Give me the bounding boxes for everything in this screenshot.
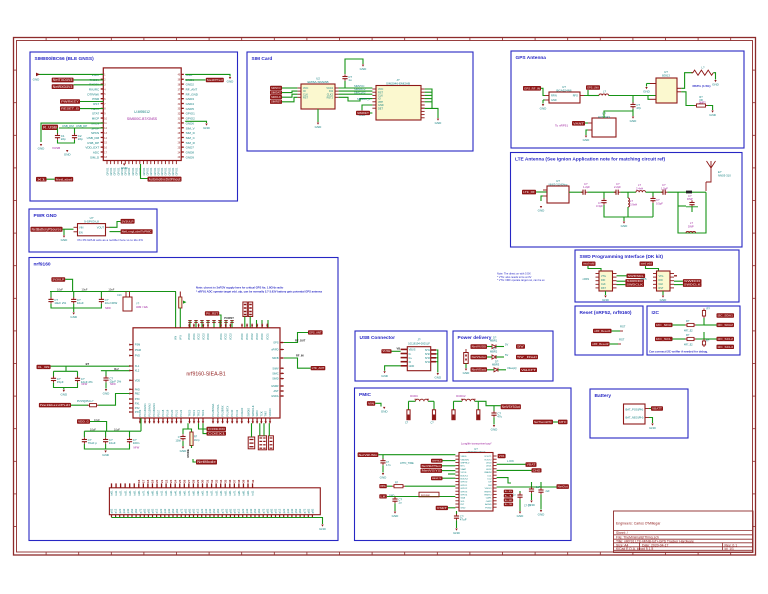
- note box: Reset: [575, 306, 643, 355]
- capacitor: [83, 437, 85, 439]
- net label nRF_Reset2: [591, 342, 610, 346]
- net label VANT: [572, 121, 585, 126]
- svg-text:GND: GND: [538, 209, 546, 213]
- svg-text:4R7_E2: 4R7_E2: [684, 330, 693, 333]
- svg-text:1M p: 1M p: [194, 439, 200, 442]
- net label SWDIO: [683, 279, 702, 283]
- svg-text:U-M95012: U-M95012: [134, 110, 150, 114]
- wire: [71, 404, 88, 406]
- wire w: [195, 320, 197, 328]
- net label NetLongLabelToPMIC: [121, 229, 153, 234]
- svg-text:I2C_SCL2: I2C_SCL2: [718, 337, 734, 341]
- svg-text:40: 40: [246, 479, 250, 483]
- wire: [63, 388, 65, 390]
- svg-text:RST: RST: [659, 287, 664, 290]
- svg-text:PU/RST: PU/RST: [224, 316, 234, 320]
- svg-text:XL2: XL2: [135, 370, 140, 373]
- wire: [408, 401, 410, 410]
- wire: [487, 356, 492, 358]
- note box: SIM800/BC66 (BLE GNSS): [30, 52, 238, 201]
- svg-text:GND: GND: [621, 224, 629, 228]
- svg-text:3V3ULP: 3V3ULP: [122, 219, 134, 223]
- svg-text:10uF: 10uF: [57, 287, 63, 291]
- svg-text:GND4: GND4: [186, 102, 195, 106]
- svg-text:L?: L?: [630, 199, 633, 203]
- crystal Y1: [123, 297, 132, 311]
- svg-text:PWRKEY: PWRKEY: [61, 100, 79, 104]
- svg-text:p72: p72: [261, 508, 265, 513]
- svg-text:COEX0: COEX0: [240, 407, 244, 416]
- svg-text:nRF5: nRF5: [640, 277, 647, 281]
- wire: [436, 361, 438, 363]
- capacitor: [661, 191, 663, 193]
- svg-text:io31: io31: [169, 490, 173, 496]
- svg-text:36: 36: [228, 479, 232, 483]
- capacitor: [105, 376, 107, 378]
- wire: [259, 423, 261, 436]
- svg-text:p82: p82: [306, 508, 310, 513]
- wire: [251, 423, 253, 437]
- svg-text:p32: p32: [286, 508, 290, 513]
- svg-text:GND: GND: [203, 126, 211, 130]
- svg-text:VTG: VTG: [659, 275, 664, 278]
- jumper JP1: [464, 353, 469, 364]
- svg-text:9-SPX3-L8: 9-SPX3-L8: [84, 220, 99, 224]
- svg-text:p02: p02: [274, 508, 278, 513]
- svg-text:p22: p22: [282, 508, 286, 513]
- wire: [382, 465, 384, 472]
- wire: [84, 444, 129, 449]
- svg-text:GND: GND: [453, 531, 461, 535]
- ground: [123, 164, 125, 166]
- svg-text:P0.14/AIN1: P0.14/AIN1: [143, 403, 147, 417]
- wire: [267, 320, 269, 328]
- net label NetBatteryPSource: [31, 227, 63, 232]
- net label NetOut: [557, 484, 569, 489]
- svg-text:RF_ANT: RF_ANT: [186, 87, 198, 91]
- wire: [632, 96, 634, 104]
- svg-text:p12: p12: [196, 508, 200, 513]
- wire: [696, 332, 704, 339]
- svg-text:PU_RST: PU_RST: [206, 311, 219, 315]
- svg-text:io71: io71: [141, 490, 145, 496]
- svg-text:R?: R?: [707, 307, 711, 311]
- wire: [219, 315, 221, 328]
- svg-text:RS: RS: [380, 484, 386, 488]
- svg-text:22p: 22p: [78, 137, 83, 141]
- svg-text:SIMDET: SIMDET: [357, 111, 369, 115]
- inductor L4: [693, 70, 713, 75]
- svg-text:BAT_POS(PH): BAT_POS(PH): [626, 408, 644, 412]
- svg-text:DNP: DNP: [687, 197, 693, 201]
- net label L1: [504, 494, 513, 498]
- wire: [436, 350, 438, 373]
- svg-text:VB: VB: [397, 347, 401, 351]
- U10 right pin stubs: [280, 342, 284, 344]
- wire: [586, 130, 588, 135]
- svg-text:L?: L?: [638, 183, 641, 187]
- svg-text:GPIO2: GPIO2: [461, 488, 468, 490]
- wire l3: [442, 470, 455, 472]
- svg-text:1.2pF: 1.2pF: [583, 185, 590, 189]
- svg-text:4R7_E2: 4R7_E2: [684, 344, 693, 347]
- wire: [179, 308, 181, 328]
- wire: [704, 324, 717, 326]
- wire: [496, 346, 504, 348]
- J5 right pin stubs: [431, 349, 436, 351]
- net label I2C_SDA1: [717, 313, 735, 317]
- wire: [105, 382, 107, 388]
- wire: [646, 266, 659, 271]
- svg-text:P0.13: P0.13: [138, 409, 142, 416]
- note box: USB Connector: [355, 331, 447, 381]
- wire: [425, 91, 432, 93]
- wire: [105, 431, 107, 437]
- U1 right pin stubs: [181, 73, 184, 75]
- svg-text:D-: D-: [409, 353, 412, 356]
- wire: [623, 217, 625, 221]
- svg-text:1.5pF: 1.5pF: [661, 186, 668, 190]
- svg-text:* VTG: NRF operate target out,: * VTG: NRF operate target out, can be ex: [497, 278, 545, 282]
- svg-text:DCDC: DCDC: [410, 394, 418, 398]
- svg-text:100n: 100n: [175, 439, 181, 442]
- svg-text:1u: 1u: [398, 501, 402, 505]
- svg-text:NetLongLabelToPMIC: NetLongLabelToPMIC: [122, 230, 153, 234]
- svg-text:VIN: VIN: [368, 401, 374, 405]
- wire: [362, 105, 372, 110]
- resistor: [392, 485, 394, 487]
- wire: [375, 403, 381, 406]
- svg-text:30: 30: [201, 479, 205, 483]
- wire to net label: [141, 164, 148, 179]
- wire: [382, 455, 384, 460]
- wire: [345, 59, 363, 74]
- wire: [649, 418, 653, 424]
- svg-text:VDD3: VDD3: [256, 333, 259, 340]
- svg-text:SIMCLK: SIMCLK: [271, 95, 281, 99]
- wire: [604, 205, 624, 217]
- wire: [696, 318, 704, 325]
- svg-text:P0.17: P0.17: [157, 409, 161, 416]
- svg-text:GND8: GND8: [186, 151, 195, 155]
- svg-text:C? C?: C? C?: [524, 505, 531, 508]
- svg-text:MICP: MICP: [92, 117, 100, 121]
- inductor: [636, 191, 646, 193]
- net label VIN: [367, 401, 375, 406]
- capacitor: [632, 102, 634, 104]
- wire: [585, 122, 588, 124]
- svg-text:P0.15/AIN2: P0.15/AIN2: [148, 403, 152, 417]
- ground: [711, 111, 713, 113]
- svg-text:P0.18: P0.18: [161, 409, 165, 416]
- wire: [90, 422, 107, 432]
- svg-text:SIM800C-BT/GNSS: SIM800C-BT/GNSS: [127, 117, 158, 121]
- svg-text:p92: p92: [188, 508, 192, 513]
- battery connector J6: [624, 404, 646, 424]
- wire: [57, 128, 59, 134]
- wire: [465, 364, 467, 369]
- wire: [370, 112, 372, 114]
- antenna ANT1: [706, 161, 716, 182]
- wire: [387, 496, 456, 498]
- wire: [51, 304, 101, 308]
- test point: [686, 191, 692, 194]
- ground: [63, 390, 65, 392]
- svg-text:10uF: 10uF: [109, 441, 116, 445]
- svg-text:BAT_NEG(PH): BAT_NEG(PH): [626, 416, 644, 420]
- wire: [73, 292, 75, 298]
- svg-text:p12: p12: [155, 508, 159, 513]
- svg-text:p82: p82: [265, 508, 269, 513]
- svg-text:GND: GND: [517, 514, 525, 518]
- svg-text:VUSB: VUSB: [383, 349, 391, 353]
- wire: [584, 90, 588, 96]
- wire: [540, 494, 542, 509]
- wire: [58, 140, 75, 143]
- wire w: [201, 320, 203, 328]
- wire l4: [443, 477, 456, 479]
- svg-text:NetMode: NetMode: [197, 460, 216, 464]
- ground: [530, 501, 532, 503]
- svg-text:p52: p52: [253, 508, 257, 513]
- svg-text:NN03-310-E4nu: NN03-310-E4nu: [549, 182, 568, 186]
- wire USB_DM: [41, 123, 103, 142]
- svg-text:1u: 1u: [348, 78, 352, 82]
- ground: [229, 77, 231, 79]
- wire: [405, 485, 455, 487]
- ground: [651, 424, 653, 426]
- wire: [339, 90, 373, 92]
- svg-text:GPIO1: GPIO1: [164, 167, 168, 175]
- svg-text:VOUT1: VOUT1: [484, 456, 492, 458]
- svg-text:PWR GND: PWR GND: [34, 213, 58, 219]
- ground: [105, 389, 107, 391]
- svg-text:To nRF91: To nRF91: [555, 124, 568, 128]
- net label VBATT: [651, 406, 663, 410]
- wire: [541, 195, 543, 197]
- svg-text:GPIO1: GPIO1: [186, 112, 196, 116]
- wire: [704, 338, 717, 340]
- capacitor: [493, 411, 495, 413]
- svg-text:NetVBATSen: NetVBATSen: [422, 464, 442, 468]
- svg-text:ATTN_TIME: ATTN_TIME: [400, 462, 414, 465]
- ground: [394, 512, 396, 514]
- svg-text:GPIO1: GPIO1: [109, 167, 113, 175]
- wire w: [219, 320, 221, 328]
- svg-text:GND: GND: [121, 166, 129, 170]
- svg-text:VBUS: VBUS: [461, 456, 467, 458]
- svg-text:P0.31: P0.31: [235, 409, 239, 416]
- svg-text:p22: p22: [241, 508, 245, 513]
- wire: [129, 431, 131, 437]
- svg-text:CLK: CLK: [659, 283, 664, 286]
- wire: [478, 401, 500, 405]
- ground: [104, 451, 106, 453]
- note box: I2C: [647, 306, 740, 355]
- svg-text:SIM2046-EMI2AB: SIM2046-EMI2AB: [386, 82, 410, 86]
- svg-text:NetVSolar: NetVSolar: [472, 355, 487, 359]
- svg-text:RSET2: RSET2: [484, 495, 492, 497]
- svg-text:MBR3: MBR3: [492, 362, 500, 366]
- svg-text:NetVBUSIn: NetVBUSIn: [359, 453, 378, 457]
- wire: [497, 486, 557, 488]
- svg-text:3.3pF: 3.3pF: [596, 204, 603, 208]
- wire: [519, 491, 521, 494]
- wire rf in: [633, 96, 650, 100]
- capacitor: [77, 376, 79, 378]
- ground: [361, 111, 363, 113]
- wire w: [207, 320, 209, 328]
- J1 top pin stubs: [111, 483, 113, 487]
- svg-text:VDD_EXT: VDD_EXT: [85, 146, 99, 150]
- svg-text:SHPHLD: SHPHLD: [461, 463, 470, 465]
- svg-text:Id: 1/1: Id: 1/1: [725, 547, 735, 551]
- svg-text:LTE_ANT: LTE_ANT: [312, 366, 325, 370]
- wire: [105, 444, 107, 449]
- wire: [487, 346, 492, 348]
- svg-text:io81: io81: [192, 490, 196, 496]
- svg-text:J?: J?: [417, 338, 421, 342]
- svg-text:10uF: 10uF: [108, 287, 114, 291]
- svg-text:p12: p12: [278, 508, 282, 513]
- note box: GPS Antenna: [511, 51, 744, 148]
- svg-text:VTG: VTG: [601, 275, 606, 278]
- wire: [282, 97, 297, 102]
- wire: [105, 371, 107, 376]
- svg-text:SWDCLK: SWDCLK: [251, 405, 255, 416]
- wire: [531, 482, 533, 488]
- svg-text:SIM Card: SIM Card: [252, 56, 273, 62]
- svg-text:I2C: I2C: [652, 310, 660, 316]
- svg-text:GPIO1: GPIO1: [142, 167, 146, 175]
- svg-text:RF_IN: RF_IN: [296, 354, 304, 358]
- svg-text:SIM800/BC66 (BLE GNSS): SIM800/BC66 (BLE GNSS): [35, 56, 95, 62]
- svg-text:16: 16: [137, 479, 141, 483]
- resistor: [190, 432, 193, 446]
- note box: SWD Programming Interface: [575, 250, 739, 302]
- title block: [614, 511, 754, 553]
- capacitor: [182, 434, 184, 436]
- wire: [678, 192, 706, 233]
- net label CHG: [532, 468, 542, 472]
- U5 right pins: [677, 87, 681, 89]
- svg-text:L?: L?: [690, 221, 693, 225]
- net label AutomotiveDetPinout: [148, 177, 182, 182]
- svg-text:GND: GND: [409, 365, 415, 368]
- svg-text:GPIO1: GPIO1: [153, 167, 157, 175]
- svg-text:5V: 5V: [517, 345, 524, 349]
- wire: [193, 459, 196, 462]
- svg-text:PGND: PGND: [485, 507, 492, 509]
- capacitor: [614, 191, 616, 193]
- svg-text:I2C_SDA: I2C_SDA: [656, 323, 671, 327]
- svg-text:PBZ: PBZ: [135, 393, 140, 396]
- svg-text:io41: io41: [128, 490, 132, 496]
- svg-text:VBAT: VBAT: [461, 468, 467, 471]
- ESD filter U2 EMI6: [301, 84, 335, 109]
- svg-text:Pin P0.GPH2 acts as a rectifie: Pin P0.GPH2 acts as a rectifier here vs …: [78, 238, 144, 242]
- wire: [185, 121, 206, 123]
- svg-text:L?: L?: [702, 66, 705, 70]
- wire: [531, 493, 533, 500]
- capacitor: [50, 297, 52, 299]
- net label RS: [379, 484, 387, 488]
- svg-text:Reset (nRF52, nrf9160): Reset (nRF52, nrf9160): [580, 310, 632, 316]
- svg-text:PUSH@PULL?: PUSH@PULL?: [77, 400, 94, 403]
- svg-text:SIM_D: SIM_D: [186, 131, 196, 135]
- svg-text:SWD Programming Interface (DK: SWD Programming Interface (DK kit): [580, 254, 664, 260]
- svg-text:SH3: SH3: [425, 357, 430, 360]
- svg-text:SIMRST: SIMRST: [271, 100, 281, 104]
- svg-text:GND7: GND7: [186, 146, 195, 150]
- svg-text:NN03-310: NN03-310: [718, 174, 731, 178]
- svg-text:GPIO1: GPIO1: [135, 167, 139, 175]
- wire: [378, 454, 383, 456]
- svg-text:GND: GND: [491, 428, 499, 432]
- wire: [182, 441, 184, 446]
- svg-text:GPS Antenna: GPS Antenna: [516, 55, 547, 61]
- svg-text:24: 24: [173, 479, 177, 483]
- ground: [540, 510, 542, 512]
- wire: [47, 178, 55, 180]
- svg-text:p42: p42: [208, 508, 212, 513]
- svg-text:R?: R?: [686, 319, 690, 323]
- svg-text:p52: p52: [171, 508, 175, 513]
- wire: [317, 109, 319, 122]
- net label SIMVCC: [270, 86, 282, 90]
- svg-text:10uF 2%: 10uF 2%: [54, 301, 66, 305]
- net label R_USB: [42, 125, 58, 130]
- wire: [282, 94, 297, 97]
- svg-text:p62: p62: [134, 508, 138, 513]
- svg-text:ADC: ADC: [93, 151, 100, 155]
- inductor: [599, 94, 609, 96]
- capacitor: [394, 497, 396, 499]
- svg-text:GND: GND: [540, 107, 548, 111]
- svg-text:GPIO1: GPIO1: [167, 167, 171, 175]
- svg-text:SIMDAT: SIMDAT: [271, 91, 281, 95]
- net label SIMDAT: [270, 90, 282, 94]
- svg-text:SIMVCC: SIMVCC: [271, 86, 281, 90]
- wire: [713, 73, 715, 80]
- svg-text:5V: 5V: [505, 353, 508, 357]
- bias tee U6: [592, 118, 616, 137]
- svg-text:VDDIO: VDDIO: [485, 488, 492, 490]
- J2 right pin stubs: [421, 88, 425, 90]
- svg-text:10u NFW: 10u NFW: [105, 301, 118, 305]
- svg-text:U?: U?: [664, 70, 668, 74]
- net label SWDSEL: [627, 274, 646, 278]
- net label NetVBatt: [471, 367, 488, 372]
- wire: [54, 383, 78, 388]
- svg-text:CHG: CHG: [533, 468, 541, 472]
- wire w: [225, 320, 227, 328]
- wire: [604, 216, 653, 218]
- svg-text:NTC: NTC: [461, 466, 466, 468]
- J6 pin stubs: [645, 408, 649, 410]
- svg-text:GND: GND: [319, 527, 327, 531]
- svg-text:34: 34: [219, 479, 223, 483]
- wire: [610, 343, 619, 345]
- svg-text:P0.20: P0.20: [170, 409, 174, 416]
- svg-text:MBR1: MBR1: [490, 339, 498, 343]
- svg-text:* nRF91 ADC operate target vdd: * nRF91 ADC operate target vdd_ulp, can …: [196, 289, 322, 293]
- svg-text:io51: io51: [178, 490, 182, 496]
- ground: [66, 150, 68, 152]
- svg-text:GND: GND: [381, 374, 389, 378]
- svg-text:SIMD: SIMD: [272, 378, 278, 381]
- wire: [436, 357, 438, 359]
